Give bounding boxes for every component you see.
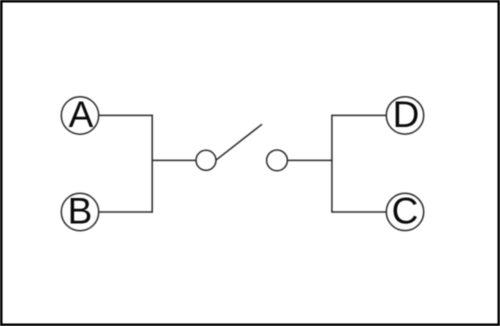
switch throw contact circle bbox=[267, 150, 288, 171]
svg-text:A: A bbox=[69, 94, 94, 135]
svg-text:D: D bbox=[393, 94, 420, 135]
right vertical bus wire bbox=[331, 115, 333, 213]
left vertical bus wire bbox=[151, 115, 153, 213]
terminal A bbox=[61, 94, 98, 135]
wire from terminal B to left bus bbox=[99, 211, 153, 213]
terminal B bbox=[61, 191, 98, 232]
wire from right bus to terminal D bbox=[332, 114, 386, 116]
switch blade (open) bbox=[216, 124, 262, 160]
terminal D bbox=[386, 94, 423, 135]
terminal C bbox=[386, 190, 423, 231]
svg-text:C: C bbox=[392, 190, 419, 231]
switch pole contact circle bbox=[196, 150, 216, 170]
wire from left bus to switch pole bbox=[152, 159, 196, 161]
wire from switch throw to right bus bbox=[287, 159, 332, 161]
wire from terminal A to left bus bbox=[99, 114, 153, 116]
svg-text:B: B bbox=[68, 191, 93, 232]
wire from right bus to terminal C bbox=[332, 211, 387, 213]
